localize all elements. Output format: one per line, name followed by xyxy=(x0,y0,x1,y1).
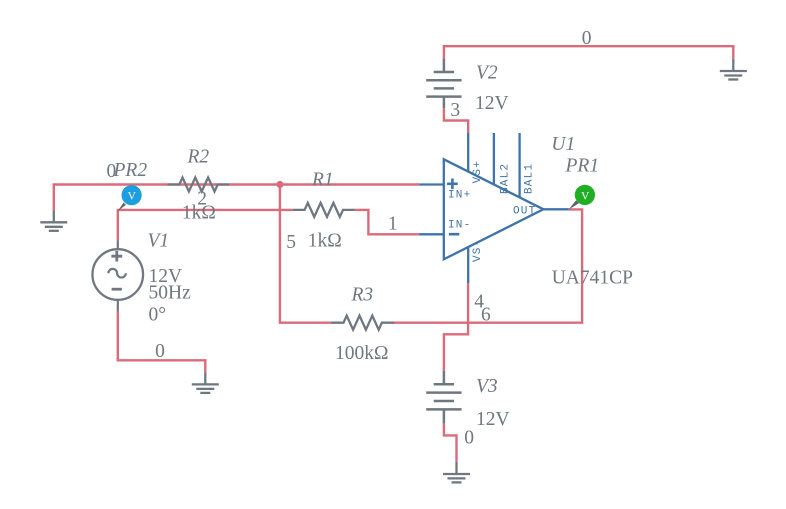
svg-text:BAL2: BAL2 xyxy=(499,163,511,194)
svg-text:50Hz: 50Hz xyxy=(149,283,192,304)
svg-text:V2: V2 xyxy=(476,62,498,83)
svg-text:5: 5 xyxy=(286,232,296,253)
svg-text:IN+: IN+ xyxy=(448,190,471,202)
svg-text:V3: V3 xyxy=(476,376,498,397)
svg-text:0°: 0° xyxy=(149,304,167,325)
svg-text:V: V xyxy=(128,191,137,203)
svg-text:U1: U1 xyxy=(551,134,575,155)
svg-text:OUT: OUT xyxy=(513,205,536,217)
svg-text:V1: V1 xyxy=(148,231,170,252)
svg-text:BAL1: BAL1 xyxy=(524,163,536,194)
svg-text:R2: R2 xyxy=(187,147,210,168)
svg-text:1kΩ: 1kΩ xyxy=(182,202,216,223)
svg-text:V: V xyxy=(581,190,590,202)
svg-text:0: 0 xyxy=(155,341,165,362)
svg-text:12V: 12V xyxy=(475,93,509,114)
svg-text:0: 0 xyxy=(582,28,592,49)
svg-text:IN-: IN- xyxy=(448,220,471,232)
svg-text:1: 1 xyxy=(388,214,398,235)
svg-text:R1: R1 xyxy=(311,170,334,191)
svg-text:VS-: VS- xyxy=(472,239,484,262)
svg-text:6: 6 xyxy=(481,305,491,326)
svg-text:UA741CP: UA741CP xyxy=(552,268,633,289)
svg-text:VS+: VS+ xyxy=(472,160,484,183)
svg-text:12V: 12V xyxy=(476,409,510,430)
svg-text:0: 0 xyxy=(464,428,474,449)
svg-text:100kΩ: 100kΩ xyxy=(335,343,389,364)
svg-text:PR2: PR2 xyxy=(113,160,148,181)
svg-text:PR1: PR1 xyxy=(565,156,600,177)
svg-text:R3: R3 xyxy=(351,285,374,306)
svg-text:3: 3 xyxy=(450,100,460,121)
svg-text:1kΩ: 1kΩ xyxy=(308,231,342,252)
